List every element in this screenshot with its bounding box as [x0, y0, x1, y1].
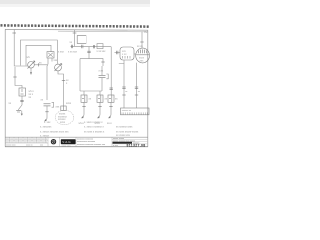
- svg-text:xxx: xxx: [33, 141, 36, 143]
- svg-text:xx xxxx xxxxx-xxxxx: xx xxxx xxxxx-xxxxx: [116, 130, 139, 133]
- title right text rows: [113, 138, 135, 142]
- wire S1 to cap chain: [47, 58, 48, 100]
- svg-text:x. xxxxx: x. xxxxx: [40, 134, 50, 137]
- connector tick Y1: [82, 106, 85, 108]
- svg-text:x: x: [46, 138, 47, 140]
- wire labels small text: [9, 31, 149, 125]
- svg-text:x: x: [46, 141, 47, 143]
- wire B3 down: [21, 96, 23, 105]
- wire to switch box B3: [15, 67, 22, 88]
- top grey scan band: [0, 0, 150, 4]
- svg-text:xxx: xxx: [37, 138, 40, 140]
- connector X1 tick: [12, 32, 16, 34]
- relay K0 box: [77, 36, 86, 44]
- connector tick on B1 wire: [38, 63, 40, 66]
- valve Y1 group: [81, 91, 87, 118]
- wire K1 M1 link: [134, 53, 136, 55]
- wire B1 right: [34, 64, 47, 66]
- wire box top H1: [21, 40, 58, 66]
- suppressor C1 bracket: [52, 102, 54, 107]
- wire Y1 drop: [83, 91, 85, 95]
- connector tick M1 drop: [135, 86, 138, 88]
- connector tick Y3: [109, 106, 112, 108]
- connector X5 block: [61, 106, 66, 111]
- connector ticks mid bus: [92, 45, 94, 48]
- svg-text:xx xxxxx xxx: xx xxxxx xxx: [116, 134, 131, 137]
- balloon text: [58, 113, 68, 124]
- title mid column text: [77, 139, 106, 146]
- svg-text:x. xxxx x xxxxxx x: x. xxxx x xxxxxx x: [84, 125, 104, 128]
- svg-text:811327.08: 811327.08: [127, 143, 146, 147]
- valve Y3 group: [108, 95, 114, 118]
- connector double tick bus: [70, 45, 72, 48]
- frame right border: [147, 30, 149, 147]
- svg-text:xxx: xxx: [19, 138, 22, 140]
- title block header cells: [10, 137, 113, 147]
- sensor B1 circle: [28, 61, 35, 69]
- wire bus to loop drop: [88, 47, 90, 59]
- svg-text:xxxx: xxxx: [66, 102, 72, 105]
- title block mid line left 2: [5, 142, 48, 144]
- svg-text:xxxxxx xx: xxxxxx xx: [122, 110, 132, 112]
- wire M1 to W: [136, 63, 138, 108]
- title header smudge: [6, 138, 47, 146]
- svg-text:xxx: xxx: [28, 138, 31, 140]
- svg-text:x xx xxx: x xx xxx: [97, 50, 107, 53]
- ground arrow Y2: [97, 114, 100, 119]
- bus 31 lower: [80, 90, 102, 92]
- svg-text:x xx: x xx: [122, 53, 127, 56]
- film ruler strip: [1, 25, 150, 26]
- svg-text:xxx: xxx: [10, 138, 13, 140]
- title block mid line left: [5, 139, 48, 141]
- brand plate VAG: [61, 139, 76, 144]
- big loop left side: [79, 59, 81, 91]
- motor M1 label: [139, 57, 145, 63]
- scan background: [0, 0, 150, 150]
- svg-text:xxx: xxx: [19, 141, 22, 143]
- svg-text:xxx: xxx: [10, 141, 13, 143]
- wire Y2 down: [99, 102, 101, 113]
- switch S1 inner mark: [48, 53, 53, 57]
- connector tick M1 feed: [140, 41, 143, 43]
- connector tick K1 drop: [122, 86, 125, 88]
- black cell: [113, 142, 133, 144]
- wire K1 left stub: [115, 52, 121, 54]
- svg-text:x. xxx: x. xxx: [44, 121, 51, 124]
- switch B3 box: [19, 88, 26, 96]
- ground G1 diagonal: [18, 105, 22, 110]
- arrow under B1: [30, 68, 32, 74]
- svg-text:xxx: xxx: [42, 141, 45, 143]
- wire M1 top feed: [141, 32, 143, 49]
- terminal strip W box: [121, 108, 150, 115]
- sensor B2 circle: [55, 64, 62, 71]
- connector tick on fuse drop: [73, 32, 77, 34]
- frame left border: [4, 29, 6, 146]
- svg-text:xxx: xxx: [42, 138, 45, 140]
- connector tick lower left: [13, 76, 16, 78]
- annotation rows above title block: [40, 121, 139, 138]
- svg-text:xxx: xxx: [33, 138, 36, 140]
- valve Y3 box: [108, 95, 114, 102]
- svg-text:xx xxxxxx xxxx: xx xxxxxx xxxx: [116, 125, 133, 128]
- svg-text:x. xxxx x xxxxx x: x. xxxx x xxxxx x: [84, 121, 103, 124]
- title right rows lines: [112, 139, 148, 144]
- connector tick under B3: [20, 99, 23, 101]
- wire B2 down to balloon: [58, 71, 64, 106]
- svg-text:xxx: xxx: [6, 138, 9, 140]
- frame top border: [5, 28, 148, 31]
- relay K1 rounded box: [120, 47, 134, 60]
- connector double tick bus b: [81, 45, 83, 48]
- connector tick H3 drop: [101, 61, 104, 63]
- svg-text:xxxxx xxxx: xxxxx xxxx: [6, 145, 16, 147]
- suppressor C2 bracket: [106, 74, 108, 79]
- wire Y1 down: [83, 102, 85, 113]
- valve Y2 group: [97, 91, 103, 118]
- svg-text:x xx xxx: x xx xxx: [68, 51, 78, 54]
- wire box top H2: [26, 45, 51, 65]
- wire C1 down: [46, 106, 48, 117]
- connector tick on drop: [110, 87, 113, 89]
- svg-text:xxxx: xxxx: [60, 121, 66, 124]
- balloon note oval: [55, 110, 74, 124]
- svg-text:xxx: xxx: [15, 138, 18, 140]
- bus 15 wire: [71, 45, 112, 47]
- valve Y2 box: [97, 95, 103, 102]
- ground arrow Y1: [81, 114, 84, 119]
- wire Y2 drop: [99, 91, 101, 95]
- switch S1 box: [47, 52, 54, 58]
- svg-text:x. xxxxx xxxxxxx xxxx xxx: x. xxxxx xxxxxxx xxxx xxx: [40, 130, 69, 133]
- svg-text:xx xx: xx xx: [137, 45, 143, 48]
- svg-text:xxx: xxx: [6, 141, 9, 143]
- wire supply drop left: [14, 30, 28, 66]
- logo roundel: [51, 139, 56, 144]
- fuse F1 box: [97, 44, 103, 49]
- svg-text:x xx: x xx: [99, 70, 104, 73]
- title block frame top: [5, 136, 148, 138]
- suppressor C2 bars: [99, 74, 106, 76]
- relay K1 label: [122, 50, 127, 56]
- svg-text:xxxx xx: xxxx xx: [26, 145, 33, 147]
- svg-text:xxxxxxx xxxxxxx xxxxxxx xxx: xxxxxxx xxxxxxx xxxxxxx xxx: [77, 144, 106, 146]
- ground arrow Y3: [108, 114, 111, 119]
- connector tick on B2 drop: [62, 80, 65, 82]
- wire bus corner down: [110, 47, 112, 95]
- wire K1 bottom hook: [119, 60, 124, 64]
- svg-text:xxx: xxx: [40, 145, 43, 147]
- wire K1 to W: [123, 64, 125, 109]
- ground G1 tail: [21, 111, 23, 116]
- connector tick Y2: [98, 106, 101, 108]
- svg-text:x. xxxxxxx: x. xxxxxxx: [40, 125, 52, 128]
- bus 30 second line: [58, 30, 148, 33]
- svg-text:xx-x: xx-x: [107, 122, 112, 125]
- valve Y1 box: [81, 95, 87, 102]
- film ruler strip texture: [2, 25, 150, 26]
- terminal strip W teeth: [122, 112, 147, 114]
- svg-text:V·A·G: V·A·G: [62, 140, 71, 144]
- wire C2 vertical: [101, 66, 103, 75]
- wire S1 stub: [51, 58, 53, 61]
- connector tick under C1: [45, 111, 48, 113]
- svg-text:xxx: xxx: [28, 141, 31, 143]
- svg-text:xxxxxxxxx xxxxxxx: xxxxxxxxx xxxxxxx: [77, 141, 96, 143]
- svg-text:xxx: xxx: [24, 138, 27, 140]
- ground arrow A0: [44, 117, 47, 121]
- svg-text:xx xxxx x xxxxxx x: xx xxxx x xxxxxx x: [84, 130, 105, 133]
- wire H3 row: [80, 59, 103, 66]
- wire Y3 down: [110, 102, 112, 113]
- svg-text:xxx: xxx: [37, 141, 40, 143]
- suppressor C1 bars: [44, 103, 51, 105]
- connector double tick on drop: [87, 50, 90, 52]
- wire fuse drop: [74, 30, 76, 47]
- svg-text:xxx: xxx: [15, 141, 18, 143]
- title block bottom border: [5, 146, 148, 148]
- svg-text:xxx: xxx: [24, 141, 27, 143]
- svg-text:xxxxx xxxx: xxxxx xxxx: [62, 145, 71, 147]
- motor M1 pump: [136, 48, 150, 63]
- svg-text:x xxx: x xxx: [58, 51, 64, 54]
